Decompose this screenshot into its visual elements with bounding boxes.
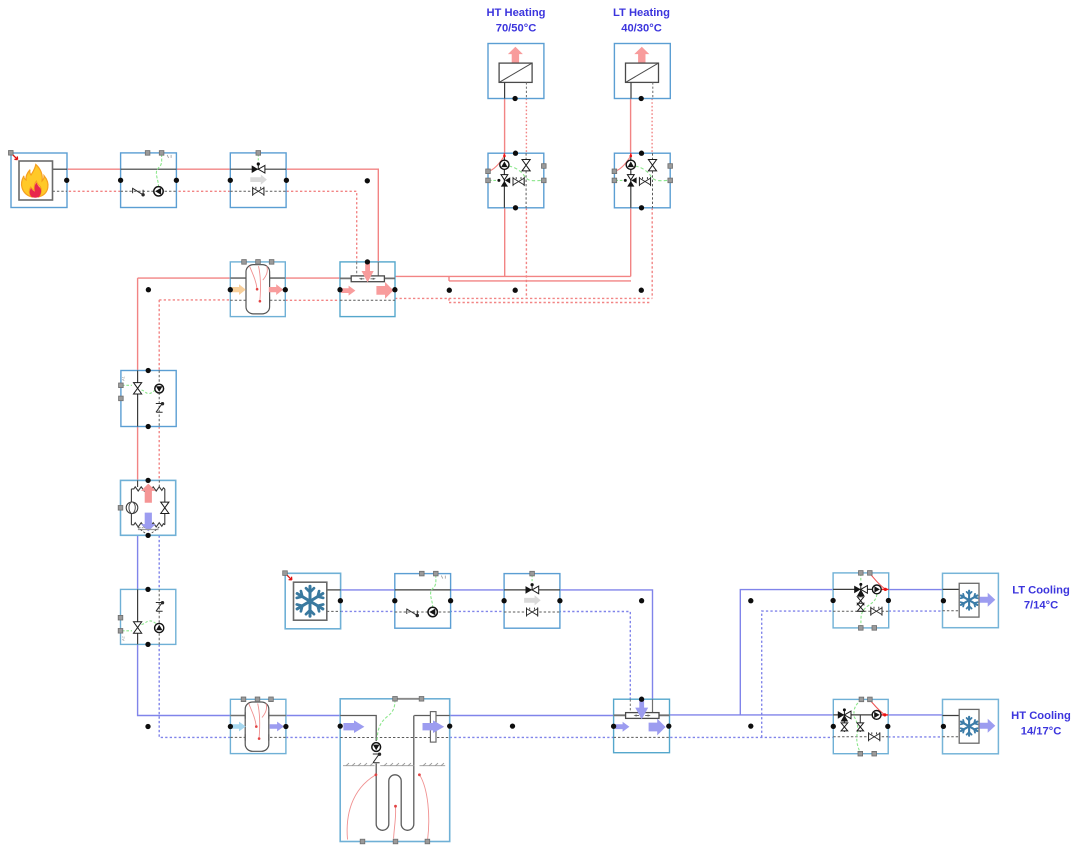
wire heating trunk B offset — [449, 280, 631, 282]
wire chiller to pump module supply — [341, 589, 395, 591]
wire chiller row supply to collector riser — [560, 590, 653, 713]
node LT group right — [886, 598, 891, 603]
node load HT inlet — [941, 724, 946, 729]
wire buffer to distributor supply — [285, 277, 340, 279]
wire valve group supply to distributor drop — [286, 169, 378, 276]
node trunk jog — [447, 288, 452, 293]
svg-text:A2: A2 — [121, 635, 126, 641]
radiator LT — [614, 44, 670, 99]
isolation module A2 (valve + check + pump) — [118, 589, 176, 644]
node P1 left — [118, 178, 123, 183]
node P2 right — [448, 598, 453, 603]
node V1 left — [228, 178, 233, 183]
boiler B1 — [11, 153, 67, 208]
node chiller branch corner — [639, 598, 644, 603]
node A1 bottom — [146, 424, 151, 429]
wire pump group return — [176, 190, 230, 192]
svg-text:14/17°C: 14/17°C — [1021, 726, 1062, 738]
wire LT cooling return riser — [762, 611, 834, 737]
wire LT radiator supply drop — [630, 99, 632, 154]
node D1 left — [337, 287, 342, 292]
node V2 right — [557, 598, 562, 603]
node mixing LT bottom — [639, 205, 644, 210]
wire heating return trunk B — [449, 302, 652, 304]
node HP1 bottom — [145, 533, 150, 538]
node HT branch — [513, 288, 518, 293]
wire LT cooling supply riser — [740, 590, 833, 715]
node P1 right — [174, 178, 179, 183]
node A1 top — [146, 368, 151, 373]
node HP1 top — [145, 478, 150, 483]
wire LT heating supply riser — [630, 208, 632, 277]
source handle boiler — [9, 151, 18, 160]
wire LT heating return riser — [651, 208, 653, 299]
node D1 top — [365, 259, 370, 264]
pump group P1 (boiler) — [121, 151, 177, 208]
wire chiller to pump module return — [341, 610, 395, 612]
node D2 right — [666, 723, 671, 728]
node boiler outlet — [64, 178, 69, 183]
buffer vessel T2 — [230, 697, 286, 754]
wire heat pump cold side to pump module — [137, 535, 139, 589]
mixing circuit LT — [612, 153, 672, 208]
node mixing LT top — [639, 151, 644, 156]
wire boiler supply to pump group — [67, 168, 121, 170]
collector D2 (open header vertical) — [614, 699, 670, 753]
wire cold riser down to bottom trunk — [138, 644, 231, 715]
svg-text:40/30°C: 40/30°C — [621, 23, 662, 35]
LT cooling valve group — [833, 571, 889, 631]
pump group P2 (chiller) — [395, 571, 451, 628]
wire LT radiator return drop — [651, 99, 653, 154]
wire HT heating supply riser — [504, 208, 506, 277]
wire heating trunk A distributor to LT riser — [395, 275, 631, 277]
wire heating return jog — [448, 298, 450, 302]
HT cooling valve group — [833, 697, 888, 756]
cooling load HT — [943, 699, 999, 753]
node D2 left — [611, 724, 616, 729]
chiller CH1 — [285, 573, 340, 629]
svg-text:A1: A1 — [121, 375, 126, 381]
valve group V1 (boiler) — [230, 151, 286, 208]
node load LT inlet — [941, 598, 946, 603]
svg-text:LT Cooling: LT Cooling — [1012, 585, 1070, 597]
svg-text:70/50°C: 70/50°C — [496, 23, 537, 35]
node boiler branch corner — [365, 178, 370, 183]
node V2 left — [501, 598, 506, 603]
ground loop GS1 — [340, 697, 450, 844]
node HT cooling branch — [748, 723, 753, 728]
wire heating return trunk A — [395, 297, 652, 299]
node HT group left — [831, 724, 836, 729]
node D2 top — [639, 697, 644, 702]
node radiator HT bottom — [512, 96, 517, 101]
source handle chiller — [283, 571, 292, 580]
wire HT radiator return drop — [525, 99, 527, 154]
node V1 right — [284, 178, 289, 183]
wire HT radiator supply drop — [504, 99, 506, 154]
node buffer T1 right — [283, 287, 288, 292]
svg-text:HT Cooling: HT Cooling — [1011, 710, 1071, 722]
wire buffer2 to ground loop return — [286, 736, 340, 738]
wire pump module to valve module supply — [450, 589, 504, 591]
node D1 right — [392, 287, 397, 292]
node radiator LT bottom — [639, 96, 644, 101]
wire left riser supply down to isolation module — [137, 278, 139, 370]
wire collector to HT cooling supply trunk — [670, 714, 834, 716]
wire ground loop to HT cooling return trunk — [450, 736, 834, 738]
node GS1 right — [447, 723, 452, 728]
wire HT heating return riser — [525, 208, 527, 299]
node trunk mid — [510, 723, 515, 728]
wire pump group to valve group supply — [176, 168, 230, 170]
wire buffer to distributor return — [285, 299, 340, 301]
radiator HT — [488, 44, 544, 99]
node HT group right — [885, 724, 890, 729]
node A2 bottom — [145, 642, 150, 647]
node LT branch — [639, 288, 644, 293]
isolation module A1 (valve + pump) — [119, 371, 177, 427]
node A2 top — [145, 587, 150, 592]
wire HT cooling group to load return — [888, 736, 942, 738]
svg-text:LT Heating: LT Heating — [613, 7, 670, 19]
svg-text:7/14°C: 7/14°C — [1024, 600, 1058, 612]
wire buffer2 to ground loop supply — [286, 715, 340, 717]
cooling load LT — [943, 573, 999, 627]
distributor D1 (open header) — [340, 262, 395, 317]
wire boiler return from pump group — [67, 190, 121, 192]
wire HT cooling group to load supply — [888, 714, 942, 716]
node T2 right — [283, 724, 288, 729]
wire isolation module to heat pump return — [158, 427, 160, 481]
wire isolation module to heat pump supply — [137, 427, 139, 481]
node buffer T1 left — [228, 287, 233, 292]
wire heating trunk jog — [448, 276, 450, 281]
wire cold return riser down — [159, 644, 230, 737]
node chiller outlet — [338, 598, 343, 603]
wire heat pump cold return — [158, 535, 160, 589]
wire distributor to buffer left supply — [138, 277, 231, 279]
svg-text:HT Heating: HT Heating — [486, 7, 545, 19]
node GS1 left — [338, 723, 343, 728]
wire LT cooling group to load return — [889, 610, 943, 612]
node LT cooling branch — [748, 598, 753, 603]
node cold riser bottom — [145, 724, 150, 729]
wire ground loop to collector supply — [450, 715, 614, 717]
heat pump HP1 — [118, 480, 176, 535]
valve group V2 (chiller) — [504, 571, 560, 628]
wire left riser return down — [158, 300, 160, 371]
wire buffer row return left — [159, 299, 230, 301]
wire valve group return from distributor riser — [286, 191, 356, 276]
mixing circuit HT — [486, 153, 546, 208]
node left riser top — [146, 287, 151, 292]
buffer vessel T1 — [230, 260, 285, 317]
wire LT cooling group to load supply — [889, 589, 943, 591]
node mixing HT top — [513, 151, 518, 156]
node mixing HT bottom — [513, 205, 518, 210]
node P2 left — [392, 598, 397, 603]
wire chiller row return riser — [560, 612, 631, 714]
node T2 left — [228, 724, 233, 729]
node LT group left — [830, 598, 835, 603]
wire pump module to valve module return — [450, 610, 504, 612]
